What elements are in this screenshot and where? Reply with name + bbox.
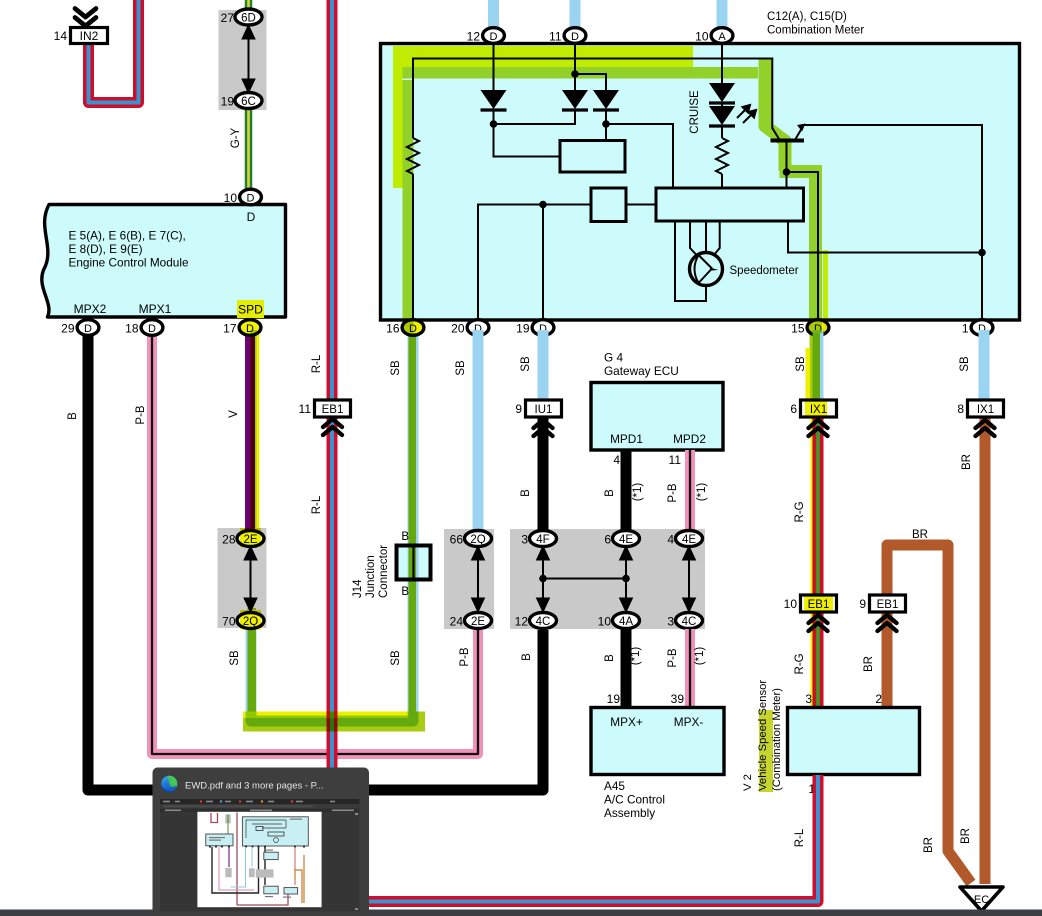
connector 10 EB1: [801, 595, 837, 612]
chevron below 8 IX1: [976, 420, 995, 436]
svg-text:Assembly: Assembly: [604, 806, 655, 820]
mini ECM box: [206, 834, 233, 846]
svg-text:G 4: G 4: [604, 351, 623, 365]
svg-text:(Combination Meter): (Combination Meter): [771, 688, 783, 791]
svg-text:G-Y: G-Y: [230, 127, 242, 148]
connector pin 3 4C: [676, 613, 703, 629]
svg-text:P-B: P-B: [667, 483, 679, 503]
svg-text:V 2: V 2: [742, 774, 754, 791]
A45 A/C Control Assembly box: [591, 708, 724, 775]
svg-text:4E: 4E: [619, 534, 633, 546]
svg-text:27: 27: [221, 11, 235, 25]
mini A45 box: [264, 886, 278, 894]
svg-text:14: 14: [54, 29, 68, 43]
highlight U-turn corner green: [409, 712, 426, 719]
svg-text:IN2: IN2: [80, 29, 99, 43]
chevron below 9 IU1: [534, 420, 553, 436]
meter bottom pin 19 D: [532, 320, 554, 336]
pdf toolbar: [160, 809, 360, 813]
svg-text:IU1: IU1: [535, 404, 553, 416]
svg-text:R-G: R-G: [794, 501, 806, 522]
svg-text:19: 19: [221, 95, 235, 109]
arrow 2Q-2E mid: [477, 550, 479, 608]
svg-text:C12(A), C15(D): C12(A), C15(D): [767, 11, 847, 23]
V2 Vehicle Speed Sensor box: [788, 708, 920, 775]
resistor cruise: [716, 138, 728, 174]
svg-text:4A: 4A: [619, 616, 633, 628]
highlight SB 16 wire green: [409, 333, 417, 712]
connector 9 EB1: [870, 595, 906, 612]
svg-text:P-B: P-B: [135, 405, 147, 425]
svg-text:MPX1: MPX1: [139, 302, 172, 316]
highlight V wire yellow fringe: [257, 333, 260, 546]
connector pin 3 4F: [530, 531, 557, 547]
mini wires descending: [212, 847, 259, 893]
svg-text:Vehicle Speed Sensor: Vehicle Speed Sensor: [757, 680, 769, 791]
mini diagram: [206, 813, 308, 906]
svg-text:E 5(A), E 6(B), E 7(C),: E 5(A), E 6(B), E 7(C),: [69, 229, 186, 243]
Engine Control Module box E5-E9: [42, 205, 286, 318]
highlight IX1 6 label: [805, 402, 827, 416]
wire left resistor to pin16: [412, 174, 414, 319]
wire R-G 10 EB1 to V2 pin3: [813, 612, 824, 708]
highlight SB 15 wire green: [810, 333, 821, 402]
svg-text:B: B: [521, 653, 533, 661]
highlight pin15 riser green: [809, 165, 822, 333]
wire node to pin15: [787, 172, 819, 319]
ECM pin 17 D highlighted: [239, 320, 261, 336]
svg-text:66: 66: [450, 533, 464, 547]
highlight meter left edge green: [403, 80, 414, 333]
wire BR 8 IX1 down to EC: [980, 418, 991, 884]
mini V2 box: [284, 888, 298, 894]
J14 junction connector box: [397, 543, 431, 582]
svg-text:D: D: [148, 323, 156, 335]
wire P-B from MPX1 pin18 down, right, up to 24 2E: [152, 330, 478, 754]
connector pin 28 2E: [237, 531, 264, 547]
wire V from SPD pin17 down to 28 2E: [245, 330, 255, 532]
svg-text:4F: 4F: [536, 534, 549, 546]
svg-text:MPX-: MPX-: [674, 715, 704, 729]
url pill: [163, 805, 313, 807]
svg-text:IX1: IX1: [977, 404, 994, 416]
svg-text:6C: 6C: [241, 96, 256, 108]
wire P-B MPD2 to 4 4E: [685, 450, 695, 532]
url bar: [160, 804, 360, 809]
mini gray connector top: [225, 814, 230, 823]
content area: [160, 812, 360, 912]
svg-text:16: 16: [386, 322, 400, 336]
taskbar strip: [0, 910, 1042, 916]
Combination Meter box: [381, 44, 1020, 321]
svg-text:D: D: [247, 193, 255, 205]
ECM pin 29 D: [77, 320, 99, 336]
svg-text:2E: 2E: [471, 616, 485, 628]
mini maroon vertical: [236, 813, 238, 906]
wire 10A diode chain: [721, 44, 723, 188]
chevron below 11 EB1: [323, 419, 342, 435]
svg-text:10: 10: [695, 30, 709, 44]
wire B from MPX2 pin29 down, right, up to 12 4C: [88, 330, 543, 790]
svg-text:R-G: R-G: [794, 653, 806, 674]
svg-text:Combination Meter: Combination Meter: [767, 25, 864, 37]
highlight pin15 riser yellow fringe: [823, 250, 828, 333]
svg-text:SB: SB: [390, 360, 402, 376]
svg-text:D: D: [247, 210, 256, 224]
svg-text:J14: J14: [352, 579, 364, 598]
svg-text:10: 10: [224, 191, 238, 205]
scrollbar specks: [355, 813, 358, 910]
meter bottom pin 15 D highlighted: [807, 320, 829, 336]
svg-text:9: 9: [859, 597, 866, 611]
transistor Q1: [771, 124, 806, 141]
svg-text:(*1): (*1): [694, 647, 706, 666]
meter internal wires: [413, 44, 982, 319]
wire R-L from IN2 U-turn: [89, 0, 139, 103]
svg-text:10: 10: [784, 597, 798, 611]
connector 14 IN2: [71, 28, 108, 44]
meter bottom pin 16 D highlighted: [402, 320, 424, 336]
mini bottom maroon: [237, 894, 288, 905]
Edge preview window: [153, 768, 370, 916]
wire SB U: 70 2Q down, right, up through J14 to meter pin 16: [251, 330, 413, 721]
svg-text:70: 70: [222, 615, 236, 629]
highlight 2Q riser green: [248, 608, 257, 712]
svg-text:E 8(D), E 9(E): E 8(D), E 9(E): [69, 242, 143, 256]
svg-text:12: 12: [515, 615, 529, 629]
svg-text:P-B: P-B: [459, 647, 471, 667]
svg-text:A45: A45: [604, 779, 625, 793]
svg-text:SB: SB: [455, 360, 467, 376]
highlighted Vehicle Speed label: [759, 710, 773, 792]
wire top bus y58.5: [413, 59, 772, 139]
junction dot 4E column: [622, 575, 630, 583]
wire transistor base to node: [786, 142, 788, 172]
wire emitter bus to pin1: [804, 125, 983, 319]
crosslink wire 4F-4E: [543, 578, 626, 580]
big box internal: [656, 188, 804, 221]
svg-text:SB: SB: [795, 356, 807, 372]
meter bottom pin 1 D: [971, 320, 993, 336]
white page: [197, 812, 321, 907]
svg-text:20: 20: [451, 322, 465, 336]
svg-text:B: B: [604, 489, 616, 497]
connector pin 27 6D: [235, 9, 262, 25]
wire speedometer left loop: [675, 221, 706, 301]
highlight R-G yellow fringe upper: [811, 418, 815, 596]
svg-text:12: 12: [467, 30, 481, 44]
svg-text:EB1: EB1: [322, 404, 344, 416]
box2 internal: [591, 188, 626, 222]
gray connector block 6D/6C: [219, 10, 267, 110]
junction dots: [490, 70, 986, 256]
highlight node to pin15 green: [780, 165, 818, 178]
gray connector block 2E/2Q left: [218, 528, 267, 628]
mini meter internals: [246, 820, 286, 842]
connector pin 24 2E: [465, 613, 492, 629]
mini gateway box: [264, 852, 278, 859]
tab bar: [160, 799, 360, 804]
svg-text:BR: BR: [863, 656, 875, 672]
svg-text:18: 18: [125, 322, 139, 336]
svg-text:MPD2: MPD2: [673, 432, 706, 446]
svg-text:EC: EC: [974, 894, 989, 906]
mini meter box: [242, 817, 308, 846]
connector 6 IX1: [801, 400, 837, 417]
mini junction boxes: [225, 868, 231, 877]
wire node into big box: [786, 172, 788, 188]
highlighted SPD label: [237, 300, 264, 318]
wire speedometer drives: [690, 221, 720, 256]
svg-text:(*1): (*1): [632, 483, 644, 502]
svg-text:BR: BR: [960, 828, 972, 844]
svg-text:B: B: [401, 531, 409, 543]
mini misc labels: [209, 819, 302, 898]
junction dot 4F column: [539, 575, 547, 583]
ECM pin 18 D: [141, 320, 163, 336]
svg-text:D: D: [490, 31, 498, 43]
highlight R-G yellow fringe lower: [811, 612, 815, 708]
chevron below 6 IX1: [809, 420, 828, 436]
svg-text:11: 11: [669, 453, 682, 467]
svg-text:3: 3: [521, 533, 528, 547]
svg-text:V: V: [228, 410, 240, 418]
svg-text:28: 28: [222, 533, 236, 547]
svg-text:BR: BR: [923, 837, 935, 853]
connector pin 19 6C: [235, 93, 262, 109]
wire diode3 bottom to big box: [606, 110, 673, 188]
svg-text:SB: SB: [520, 356, 532, 372]
connector pin 10 4A: [613, 613, 640, 629]
svg-text:B: B: [604, 654, 616, 662]
svg-text:10: 10: [598, 615, 612, 629]
resistor left: [407, 138, 419, 174]
connector 11 EB1: [315, 400, 351, 417]
svg-text:Engine Control Module: Engine Control Module: [69, 256, 189, 270]
Edge logo: [161, 776, 177, 792]
svg-text:(*1): (*1): [630, 647, 642, 666]
arrow 4F-4C: [542, 550, 544, 608]
svg-text:1: 1: [962, 322, 969, 336]
wire R-G 6 IX1 to 10 EB1: [813, 418, 824, 596]
highlighter marker overlay: [240, 46, 833, 732]
svg-text:3: 3: [667, 615, 674, 629]
diode D4 cruise: [709, 83, 735, 102]
svg-text:6: 6: [604, 533, 611, 547]
svg-text:EB1: EB1: [877, 599, 899, 611]
mini screenshot: [160, 799, 360, 912]
connector pin 6 4E: [613, 531, 640, 547]
LED arrows: [737, 105, 756, 123]
svg-text:MPD1: MPD1: [610, 432, 643, 446]
svg-text:SB: SB: [229, 650, 241, 666]
connector pin 4 4E: [676, 531, 703, 547]
diode D2: [562, 90, 588, 109]
highlight EB1 10 label: [804, 597, 833, 611]
svg-text:Gateway ECU: Gateway ECU: [604, 364, 679, 378]
chevron below 10 EB1: [809, 615, 828, 631]
svg-text:B: B: [520, 489, 532, 497]
connector pin 12 4C: [530, 613, 557, 629]
svg-text:24: 24: [450, 615, 464, 629]
svg-text:A/C Control: A/C Control: [604, 793, 665, 807]
speedometer: [690, 253, 723, 286]
wire R-L main vertical x332 upper: [327, 0, 338, 400]
svg-text:MPX+: MPX+: [610, 715, 643, 729]
svg-text:Speedometer: Speedometer: [730, 265, 799, 277]
svg-text:BR: BR: [912, 529, 928, 541]
svg-text:Connector: Connector: [378, 545, 390, 598]
wire G-Y vertical: [245, 0, 253, 192]
diode D1: [481, 90, 507, 109]
wire SB pin15 to 6 IX1: [813, 330, 824, 400]
highlight meter top bus yellow: [393, 46, 693, 67]
wire SB pin1 to 8 IX1: [979, 330, 990, 400]
svg-text:B: B: [401, 586, 409, 598]
svg-text:17: 17: [223, 322, 237, 336]
wire pin19 riser: [542, 205, 544, 320]
diode D3: [593, 90, 619, 109]
wire 11D down: [574, 44, 576, 90]
meter top pin 11 D: [564, 28, 586, 44]
chevron below 9 EB1: [878, 615, 897, 631]
meter top pin 12 D: [483, 28, 505, 44]
Gateway ECU box G4: [591, 383, 723, 451]
highlight transistor branch green: [765, 58, 785, 171]
svg-text:SPD: SPD: [238, 303, 263, 317]
LED cruise: [709, 106, 735, 125]
arrow 2E-2Q left: [250, 550, 252, 608]
svg-text:19: 19: [516, 322, 530, 336]
svg-text:P-B: P-B: [667, 648, 679, 668]
svg-text:29: 29: [61, 322, 75, 336]
wire BR loop 9 EB1 up over down to EC: [887, 545, 971, 883]
svg-text:R-L: R-L: [794, 828, 806, 847]
svg-text:EWD.pdf and 3 more pages - P..: EWD.pdf and 3 more pages - P...: [185, 781, 324, 792]
svg-text:11: 11: [299, 402, 312, 416]
gray connector block 4F/4E/4A/4C wide: [510, 529, 705, 629]
ground EC: [960, 887, 1003, 911]
wire diode bottoms bus y124: [494, 110, 576, 124]
svg-text:MPX2: MPX2: [74, 302, 107, 316]
wire R-L main vertical x332 lower: [327, 419, 338, 769]
svg-text:A: A: [718, 31, 726, 43]
wire R-L V2 pin1 down and left: [369, 775, 818, 902]
box1 internal: [560, 141, 625, 173]
junction arrow 6D-6C: [242, 25, 255, 93]
svg-text:6D: 6D: [241, 13, 256, 25]
svg-text:4: 4: [613, 453, 620, 467]
arrow 4E-4C: [688, 550, 690, 608]
wire branch to diode3: [575, 74, 606, 90]
wire 12D to diode chain: [493, 44, 495, 90]
wire SB pin19 to IU1: [538, 330, 549, 400]
svg-text:B: B: [67, 412, 79, 420]
highlight meter left edge yellow: [393, 67, 403, 188]
svg-text:39: 39: [671, 692, 685, 706]
gray connector block 2Q/2E middle: [444, 529, 494, 629]
highlight V wire green-on-violet: [251, 330, 258, 548]
svg-text:Junction: Junction: [365, 555, 377, 598]
junction arrows in gray blocks: [244, 546, 696, 612]
svg-text:4C: 4C: [536, 616, 551, 628]
highlight meter top bus green: [403, 67, 759, 79]
connector 9 IU1: [526, 400, 562, 417]
svg-text:15: 15: [791, 322, 805, 336]
svg-text:4E: 4E: [682, 534, 696, 546]
wire B MPD1 to 6 4E: [621, 450, 632, 532]
connector pin 70 2Q: [237, 613, 264, 629]
meter top pin 10 A: [711, 28, 733, 44]
svg-text:9: 9: [515, 402, 522, 416]
wire box2 to big box: [626, 204, 656, 206]
svg-text:D: D: [571, 31, 579, 43]
chevron into IN2: [75, 9, 96, 27]
meter bottom pin 20 D: [467, 320, 489, 336]
wire pin20 riser and box2 link: [478, 205, 591, 320]
wire big box bottom right branch: [788, 221, 982, 253]
wire P-B 3 4C to A45 pin39: [685, 629, 695, 708]
svg-text:D: D: [84, 323, 92, 335]
wire BR 9 EB1 to V2 pin2: [882, 612, 893, 708]
mini pins row: [209, 845, 305, 847]
svg-text:R-L: R-L: [311, 354, 323, 373]
highlight U-turn yellow: [243, 712, 409, 719]
svg-text:SB: SB: [959, 356, 971, 372]
wire B 10 4A to A45 pin19: [621, 629, 632, 708]
connector pin 66 2Q: [465, 531, 492, 547]
wires SB into meter top pins: [494, 0, 723, 28]
svg-text:(*1): (*1): [696, 483, 708, 502]
wire SB pin20 to 66 2Q: [473, 330, 484, 532]
svg-text:8: 8: [957, 402, 964, 416]
svg-text:BR: BR: [961, 454, 973, 470]
tab specks: [163, 801, 335, 803]
pin 10 D on ECM top: [240, 189, 262, 205]
svg-text:SB: SB: [390, 650, 402, 666]
svg-text:4C: 4C: [682, 616, 697, 628]
arrow 4E-4A: [625, 550, 627, 608]
mini R-L U top left: [211, 813, 218, 823]
svg-text:CRUISE: CRUISE: [689, 90, 701, 134]
svg-text:4: 4: [667, 533, 674, 547]
svg-text:11: 11: [549, 30, 562, 44]
connector 8 IX1: [968, 400, 1004, 417]
svg-text:2: 2: [875, 692, 882, 706]
svg-text:19: 19: [607, 692, 621, 706]
svg-text:2Q: 2Q: [470, 534, 485, 546]
highlight U-turn green: [243, 718, 425, 732]
wire B IU1 to 3 4F: [538, 418, 549, 532]
highlight SB 15 wire yellow fringe: [806, 348, 811, 402]
svg-text:6: 6: [790, 402, 797, 416]
highlight ovals 2E 2Q: [240, 528, 261, 547]
svg-text:R-L: R-L: [311, 495, 323, 514]
